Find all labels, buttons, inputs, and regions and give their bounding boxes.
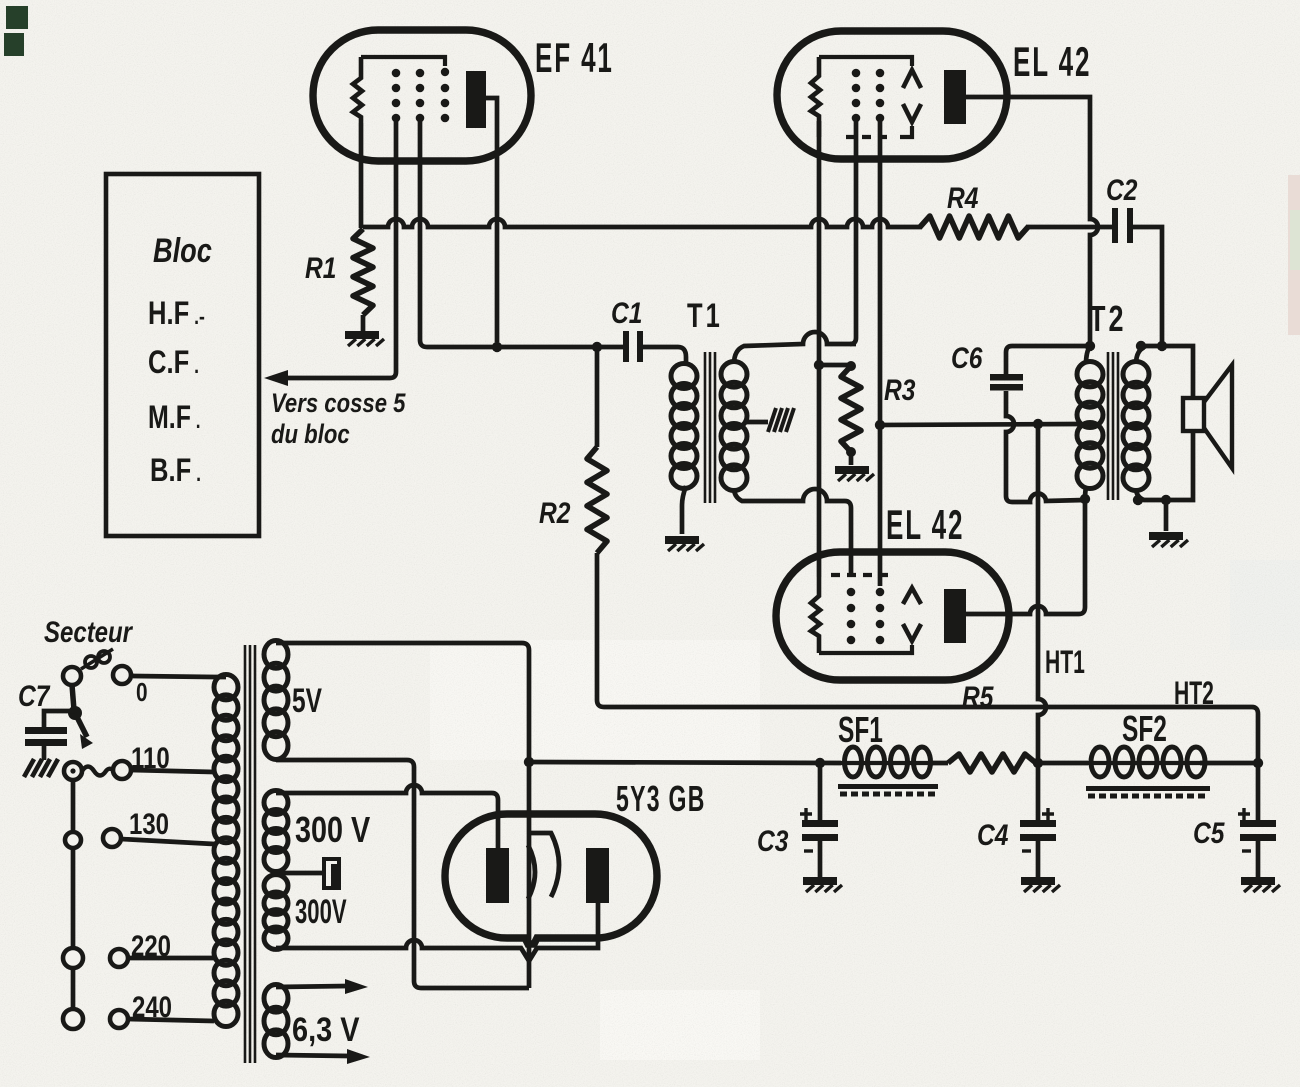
ground below T1 primary [665, 536, 704, 551]
wire C6 bottom to T2 primary bottom (hops HT1 wire) [1012, 493, 1090, 504]
wire SF2 to C5 node [1200, 758, 1263, 768]
tube EF41 envelope [313, 30, 531, 161]
svg-text:HT1: HT1 [1045, 643, 1085, 680]
svg-text:5Y3 GB: 5Y3 GB [616, 780, 706, 819]
EL42-2 anode plate [944, 589, 966, 643]
transformer T2 primary coil [1077, 346, 1103, 488]
label M.F. [148, 400, 201, 436]
selector chain wire down [71, 780, 76, 1010]
label Vers cosse 5 du bloc [271, 389, 407, 450]
EL42-2 cathode [811, 577, 820, 653]
T2 secondary top lead line [1136, 341, 1193, 398]
selector chain circle 110-level [64, 762, 82, 780]
svg-text:C5: C5 [1193, 816, 1225, 850]
mains terminal right [113, 666, 131, 684]
EF41 g1 lead wire to arrow [264, 120, 396, 386]
5Y3 left anode [486, 848, 509, 903]
EL42-1 anode plate [944, 70, 966, 124]
EF41 grid g3 suppressor (dotted) [441, 84, 450, 123]
switch lever and pivot [68, 685, 93, 749]
wire C1 node line (g2+plate+R2 junction to C1) [427, 342, 623, 352]
C6 bottom lead to T2 primary bottom node (hops screen line) [1006, 391, 1014, 502]
EF41 anode plate [466, 71, 486, 128]
T1 primary bottom lead to ground [682, 486, 686, 534]
svg-text:C7: C7 [18, 679, 51, 713]
secondary 300V upper winding [264, 791, 288, 872]
resistor R5 [948, 754, 1036, 772]
capacitor C3 electrolytic with ground [800, 763, 842, 892]
6,3V bottom lead with arrow [276, 1049, 370, 1064]
selector chain circle 240-level [63, 1009, 83, 1029]
wire SF1 to R5 [931, 761, 948, 766]
label R3 [884, 373, 915, 407]
svg-text:R1: R1 [305, 251, 336, 285]
svg-text:du bloc: du bloc [271, 420, 350, 450]
mains switch symbol [81, 649, 113, 669]
capacitor C6 [990, 374, 1023, 391]
ground below C7 [24, 759, 58, 777]
wire main HT rail from rectifier to filter [524, 757, 841, 768]
tube EL42 no.2 envelope [776, 552, 1009, 680]
tuner block "Bloc" box [106, 174, 259, 536]
EF41 plate lead wire [486, 98, 502, 352]
label Secteur [44, 614, 133, 648]
EF41 grid g1 (dotted) [392, 69, 401, 123]
capacitor C5 electrolytic with ground [1238, 763, 1280, 892]
tap 110 wire [131, 770, 214, 772]
T1 secondary center tap to ground [744, 420, 768, 425]
svg-text:SF2: SF2 [1122, 708, 1167, 749]
label B.F. [150, 453, 201, 488]
svg-text:130: 130 [129, 806, 169, 840]
svg-text:R3: R3 [884, 373, 915, 407]
6,3V top lead with arrow [276, 979, 368, 994]
label R4 [947, 181, 978, 215]
label 5Y3 GB [616, 780, 706, 819]
wire terminal 0 [131, 675, 133, 676]
svg-text:C4: C4 [977, 818, 1008, 852]
svg-text:C6: C6 [951, 341, 983, 375]
EF41 cathode [353, 57, 362, 123]
wire HT1 riser (screen line down to filter rail, hops HT2 line) [1038, 424, 1046, 763]
T2 secondary bottom lead line [1133, 431, 1193, 505]
terminal 110 [113, 761, 131, 779]
label C1 [611, 296, 642, 330]
svg-text:R2: R2 [539, 496, 570, 530]
wire feedback line from EF41 cathode to R4 with hop-overs [363, 219, 922, 227]
T2 primary bottom lead [1085, 486, 1086, 499]
flexible link to 110 terminal [82, 767, 113, 776]
300V bottom lead to 5Y3 right anode (hop + filament pass-through) [276, 903, 598, 961]
transformer T1 primary coil [671, 364, 697, 489]
svg-text:T1: T1 [687, 298, 723, 335]
terminal 240 [110, 1010, 128, 1028]
HV centre tap with fuse terminal [280, 859, 339, 888]
svg-text:EF 41: EF 41 [535, 35, 614, 82]
label R2 [539, 496, 570, 530]
transformer T1 secondary coil [721, 362, 747, 491]
svg-text:0: 0 [136, 678, 148, 707]
EF41 g2 lead wire down to C1 node line [420, 120, 427, 347]
label C6 [951, 341, 983, 375]
svg-text:Bloc: Bloc [153, 231, 212, 270]
tap 240 wire [128, 1019, 214, 1021]
secondary 5V winding [264, 641, 288, 760]
T2 core [1108, 352, 1118, 500]
power transformer primary winding [214, 675, 238, 1027]
EL42-1 internal frame with beam plates [819, 57, 921, 137]
EL42-1 g1 wire down to T1 secondary top line [850, 121, 856, 344]
300V top lead to 5Y3 left anode (hops 5V return wire) [276, 785, 498, 848]
wire HT2 line from R2 bottom to C5 node [604, 707, 1258, 763]
wire R5 to SF2 [1033, 758, 1088, 768]
EL42-2 grid g1 (dotted) [847, 588, 856, 645]
EL42-2 plate lead to T2 primary bottom (hops HT1 wire) [966, 500, 1085, 614]
svg-text:300 V: 300 V [295, 809, 370, 850]
svg-text:240: 240 [132, 989, 172, 1023]
wire C2 to T2 secondary top [1133, 227, 1162, 346]
svg-text:EL 42: EL 42 [886, 502, 964, 549]
tap 220 wire [128, 956, 214, 961]
EL42-2 internal frame with beam plates [819, 575, 921, 653]
EL42-2 grid g2 (dotted) [876, 588, 885, 645]
label C5 [1193, 816, 1225, 850]
primary top lead to terminal 0 [133, 676, 226, 677]
label C2 [1106, 173, 1137, 207]
transformer T2 secondary coil [1123, 362, 1149, 491]
terminal 130 [103, 829, 121, 847]
label T2 [1089, 298, 1126, 339]
selector chain circle mid [65, 832, 81, 848]
EL42-1 grid g2 (dotted) [876, 69, 885, 123]
T1 core [705, 352, 715, 503]
mains terminal left [63, 667, 81, 685]
label H.F. [148, 296, 205, 331]
svg-text:R5: R5 [962, 680, 994, 714]
scan artifact top-left [4, 6, 28, 56]
resistor R1 [353, 229, 373, 332]
EL42-1 plate lead to T2 primary top (hops over C2 line) [966, 97, 1098, 346]
EF41 cathode lead wire [359, 123, 364, 228]
capacitor C4 electrolytic with ground [1020, 763, 1060, 892]
loudspeaker [1183, 365, 1232, 468]
label 300V [295, 893, 347, 931]
label EL42 top [1013, 39, 1091, 86]
5Y3 right anode [586, 848, 609, 903]
capacitor C7 [25, 711, 75, 760]
resistor R4 [920, 216, 1028, 238]
svg-text:6,3 V: 6,3 V [292, 1010, 359, 1049]
label C3 [757, 824, 788, 858]
C6 top lead to T2 primary top node [1006, 341, 1095, 374]
capacitor C2 [1112, 208, 1133, 243]
SF2 core bars [1086, 786, 1210, 796]
svg-text:R4: R4 [947, 181, 978, 215]
ground below R1 [345, 331, 384, 346]
wire C1 to T1 primary top [643, 347, 686, 366]
ground below T2 secondary [1149, 500, 1188, 547]
svg-text:Vers cosse 5: Vers cosse 5 [271, 389, 407, 419]
resistor R3 [841, 361, 861, 465]
label EL42 middle [886, 502, 964, 549]
label C4 [977, 818, 1008, 852]
svg-text:220: 220 [131, 928, 171, 962]
svg-text:300V: 300V [295, 893, 347, 931]
selector chain circle 220-level [63, 948, 83, 968]
screen/plate supply line to T2 primary centre tap [880, 419, 1079, 429]
EF41 internal frame (cathode to g3 top) [361, 57, 449, 76]
wire cathode node to R3 [819, 363, 851, 368]
svg-text:T2: T2 [1089, 298, 1126, 339]
5V winding top lead / B+ node wire through tube to filament [276, 643, 529, 988]
tap 130 wire [121, 839, 214, 844]
power transformer core [245, 645, 255, 1063]
svg-text:C2: C2 [1106, 173, 1137, 207]
svg-text:SF1: SF1 [838, 709, 883, 750]
EL42-1 cathode [811, 57, 820, 137]
svg-text:110: 110 [131, 740, 170, 774]
T1 secondary bottom lead to EL42-2 g1 (hops cathode wire) [734, 488, 851, 577]
label SF1 [838, 709, 883, 750]
EL42-1 grid g1 (dotted) [852, 69, 861, 123]
svg-text:Secteur: Secteur [44, 614, 133, 648]
label R5 [962, 680, 994, 714]
secondary 300V lower winding [264, 875, 288, 950]
label 5V [292, 682, 322, 720]
EL42-1 / EL42-2 shared g2 wire down [875, 121, 885, 586]
label 300 V [295, 809, 370, 850]
label EF41 [535, 35, 614, 82]
svg-text:EL 42: EL 42 [1013, 39, 1091, 86]
scan artifact right edge [1288, 175, 1300, 335]
label 0 [136, 678, 148, 707]
ground at T1 center tap [768, 408, 794, 432]
SF1 core bars [838, 784, 938, 794]
label C7 [18, 679, 51, 713]
5Y3 filament [528, 833, 559, 899]
label R1 [305, 251, 336, 285]
ground below R3 [835, 466, 874, 481]
secondary 6,3V winding [264, 985, 288, 1058]
label SF2 [1122, 708, 1167, 749]
filter choke SF1 [841, 747, 934, 777]
svg-text:HT2: HT2 [1174, 674, 1214, 711]
svg-text:5V: 5V [292, 682, 322, 720]
capacitor C1 [623, 331, 643, 362]
filter choke SF2 [1088, 747, 1208, 777]
label 6,3 V [292, 1010, 359, 1049]
label T1 [687, 298, 723, 335]
terminal 220 [110, 949, 128, 967]
wire R4 to C2 [1026, 225, 1112, 230]
EL42-1 / EL42-2 shared cathode wire down [814, 121, 824, 577]
label 220 [131, 928, 171, 962]
label 130 [129, 806, 169, 840]
label 240 [132, 989, 172, 1023]
label C.F. [148, 345, 199, 380]
resistor R2 with leads down to HT2 rail [587, 347, 607, 707]
tube 5Y3GB envelope [445, 814, 657, 944]
label HT1 [1045, 643, 1085, 680]
label 110 [131, 740, 170, 774]
tube EL42 no.1 envelope [777, 31, 1007, 159]
svg-text:C3: C3 [757, 824, 788, 858]
label Bloc [153, 231, 212, 270]
T1 secondary top lead to EL42-1 g1 (hops cathode wire) [734, 332, 856, 364]
svg-text:C1: C1 [611, 296, 642, 330]
EF41 grid g2 screen (dotted) [416, 69, 425, 123]
5V winding bottom return wire to filament [276, 760, 529, 988]
label HT2 [1174, 674, 1214, 711]
